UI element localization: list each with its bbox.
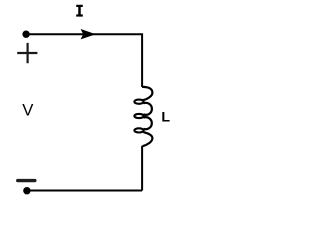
label I (slab serif glyph): [76, 5, 83, 17]
minus terminal symbol: [16, 179, 36, 182]
plus terminal symbol: [17, 43, 37, 63]
inductor loop 3: [134, 128, 143, 132]
inductor arc 2-3: [143, 117, 151, 129]
svg-text:L: L: [161, 110, 170, 126]
node B (bottom-left terminal dot): [23, 187, 30, 194]
wire top from node A to corner, then down to inductor top: [26, 34, 142, 87]
inductor L coil: top tail arc: [142, 87, 153, 101]
node A (top-left terminal dot): [22, 31, 29, 38]
svg-text:V: V: [22, 101, 34, 120]
inductor bottom tail arc: [143, 132, 153, 146]
inductor loop 1: [134, 100, 143, 104]
wire inductor to bottom corner: [141, 146, 143, 191]
current arrow head: [81, 30, 94, 39]
inductor arc 1-2: [143, 103, 152, 115]
inductor loop 2: [134, 114, 143, 118]
wire bottom: [27, 190, 142, 192]
